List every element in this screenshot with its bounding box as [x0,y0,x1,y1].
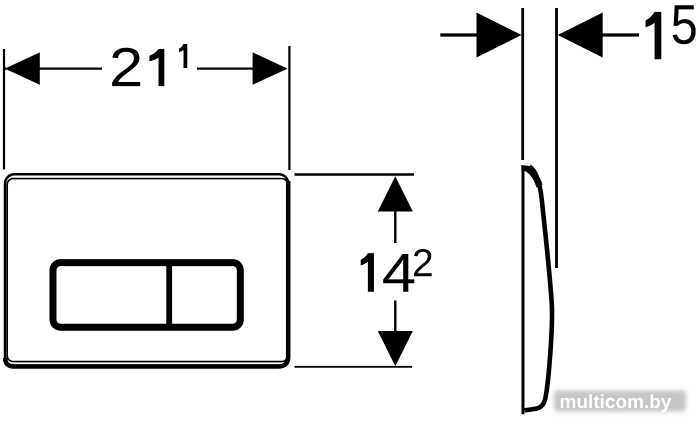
dimension 15: left-pointing arrowhead [558,13,603,58]
side profile: back (left) edge [522,166,525,415]
watermark band [554,391,686,412]
button panel: divider between buttons [166,261,172,329]
dimension 142: bottom extension line [295,366,413,368]
side profile: top wedge [521,165,542,188]
watermark text multicom.by [561,394,672,412]
side profile: curved front face and bottom edge [525,167,552,411]
dimension 15: right measuring line [555,8,558,268]
dimension 211: dimension line left segment [5,67,102,69]
plate front view: thickened right and bottom edge [5,181,288,366]
dimension 142: value label digit 1 [361,253,374,292]
button panel: thick rounded frame [53,263,240,328]
dimension 15: value label 1 [646,12,662,59]
dimension 142: top extension line [295,173,415,175]
dimension 142: up arrowhead [378,176,413,211]
dimension 142: superscript 2 [414,249,432,276]
dimension 211: right arrowhead [253,52,288,84]
dimension 142: value label digit 4 [383,254,414,292]
dimension 15: superscript 5 [673,5,696,44]
dimension 211: left extension line [3,49,5,170]
dimension 211: right extension line [288,46,290,170]
dimension 15: left measuring line [521,8,524,160]
dimension 211: value label digit 2 [112,48,140,86]
dimension 211: left arrowhead [5,52,40,84]
plate front view: outer body [5,174,288,366]
dimension 211: dimension line right segment [197,67,286,69]
dimension 15: right-pointing arrowhead [477,13,522,58]
plate front view: inner bevel outline [7,179,287,362]
dimension 142: lower dimension line segment [394,301,396,333]
dimension 211: value label digit 1 [149,49,164,86]
dimension 142: upper dimension line segment [394,210,396,243]
dimension 15: dimension line left segment [440,33,478,36]
dimension 142: down arrowhead [378,331,413,366]
dimension 15: dimension line right segment [602,33,640,36]
dimension 211: superscript 1 [179,44,187,68]
